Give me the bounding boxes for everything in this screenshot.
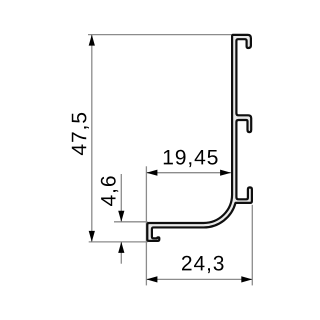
- label 19,45: [164, 150, 218, 167]
- arrow 19,45 left: [146, 170, 157, 176]
- dimension line 47,5 vertical: [91, 35, 93, 242]
- extension line top (47,5 upper reference): [88, 34, 231, 36]
- dimension line 4,6 vertical with outside arrows: [120, 174, 122, 264]
- arrow 24,3 left: [146, 276, 157, 282]
- label 24,3: [182, 256, 224, 273]
- arrow 47,5 up: [89, 35, 95, 46]
- extension line left vertical (19,45 / 24,3 left reference): [145, 166, 147, 285]
- dimension line 24,3 horizontal: [147, 278, 252, 280]
- extension line bottom-left (47,5 / 4,6 lower reference): [89, 241, 148, 243]
- label 4,6: [101, 176, 118, 206]
- arrow 47,5 down: [89, 231, 95, 242]
- label 47,5: [72, 113, 89, 155]
- arrow 19,45 right: [220, 170, 231, 176]
- extension line right vertical (24,3 right reference): [251, 205, 253, 286]
- dimension line 19,45 horizontal: [147, 172, 231, 174]
- extension line lip top (4,6 upper reference): [114, 221, 148, 223]
- aluminium profile cross-section outline: [147, 35, 252, 241]
- arrow 4,6 down (above lip, pointing down): [118, 211, 124, 222]
- arrow 4,6 up (below lip, pointing up): [118, 242, 124, 253]
- arrow 24,3 right: [241, 276, 252, 282]
